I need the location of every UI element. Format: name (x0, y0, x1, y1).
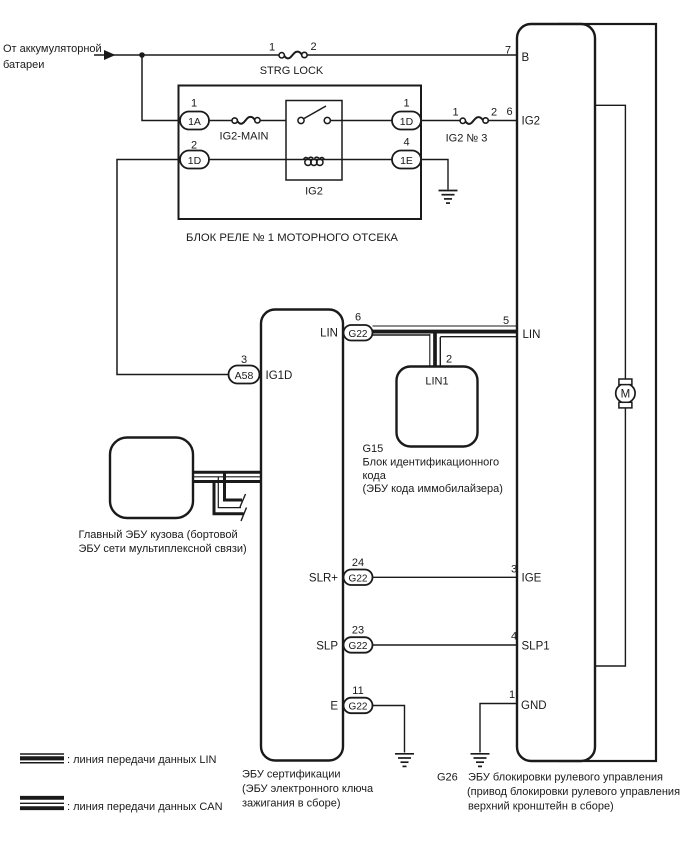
ground (E) (395, 754, 414, 767)
svg-text:5: 5 (503, 315, 509, 327)
wire junction to relay block pin 1A (142, 55, 180, 121)
svg-text:A58: A58 (235, 370, 254, 382)
LIN drop to G15 (thin-thick-thin vertical) (430, 332, 441, 367)
svg-text:SLP: SLP (316, 641, 338, 653)
svg-text:Блок идентификационного: Блок идентификационного (363, 456, 500, 468)
svg-text:G15: G15 (363, 443, 384, 455)
svg-text:2: 2 (310, 41, 316, 53)
svg-text:SLR+: SLR+ (309, 573, 338, 585)
fuse IG2 No.3 (446, 106, 513, 145)
svg-text:G26: G26 (437, 772, 458, 784)
svg-text:7: 7 (505, 45, 511, 57)
svg-text:БЛОК РЕЛЕ № 1 МОТОРНОГО ОТСЕКА: БЛОК РЕЛЕ № 1 МОТОРНОГО ОТСЕКА (186, 232, 398, 244)
svg-text:1: 1 (452, 107, 458, 119)
legend CAN line symbol (20, 798, 64, 808)
svg-text:GND: GND (521, 700, 547, 712)
LIN bus wire (thin-thick-thin) (373, 326, 517, 337)
certification ECU block (261, 310, 343, 761)
wire 1D left to A58 (117, 160, 229, 375)
motor M1 (616, 379, 635, 408)
svg-text:LIN: LIN (523, 329, 541, 341)
svg-text:1D: 1D (188, 155, 202, 167)
relay block no.1 box (179, 86, 422, 220)
svg-text:G22: G22 (349, 329, 368, 340)
svg-text:2: 2 (491, 107, 497, 119)
wire 1D(left) to coil (209, 159, 392, 161)
relay coil (303, 157, 324, 165)
svg-text:ЭБУ блокировки рулевого управл: ЭБУ блокировки рулевого управления (468, 772, 663, 784)
svg-text:3: 3 (241, 354, 247, 366)
svg-text:24: 24 (352, 557, 364, 569)
svg-text:G22: G22 (349, 641, 368, 652)
ECU block G26 (rounded) (517, 24, 595, 761)
wire motor loop (595, 105, 625, 666)
CAN branch continues (down then right with cut end) (214, 472, 247, 521)
svg-text:(привод блокировки рулевого уп: (привод блокировки рулевого управления (467, 786, 680, 798)
svg-text:ЭБУ сертификации: ЭБУ сертификации (242, 769, 341, 781)
svg-text:4: 4 (403, 137, 409, 149)
wire SLR+ to IGE (373, 576, 517, 578)
svg-text:M: M (621, 389, 631, 401)
legend LIN line symbol (20, 754, 64, 763)
ground (GND) (471, 754, 490, 767)
wire E to ground (373, 706, 405, 753)
svg-text:кода: кода (363, 470, 387, 482)
svg-text:1: 1 (403, 98, 409, 110)
svg-text:6: 6 (355, 312, 361, 324)
svg-text:(ЭБУ кода иммобилайзера): (ЭБУ кода иммобилайзера) (363, 483, 503, 495)
svg-text:1A: 1A (188, 116, 201, 128)
connector oval G22 pin 24 (SLR+) (344, 557, 373, 585)
relay contact (298, 106, 392, 124)
svg-text:IG2 № 3: IG2 № 3 (446, 133, 488, 145)
svg-text:IG2-MAIN: IG2-MAIN (220, 131, 269, 143)
svg-text:IG2: IG2 (305, 186, 323, 198)
svg-text:2: 2 (446, 354, 452, 366)
svg-text:LIN: LIN (320, 328, 338, 340)
svg-text:верхний кронштейн в сборе): верхний кронштейн в сборе) (468, 801, 614, 813)
svg-text:ЭБУ сети мультиплексной связи): ЭБУ сети мультиплексной связи) (79, 543, 247, 555)
wire from battery (94, 54, 517, 56)
svg-text:1: 1 (269, 42, 275, 54)
svg-text:23: 23 (352, 625, 364, 637)
fuse STRG LOCK (260, 41, 324, 77)
svg-text:3: 3 (511, 564, 517, 576)
fuse IG2-MAIN (220, 117, 269, 143)
svg-text:STRG LOCK: STRG LOCK (260, 65, 324, 77)
outer rectangle of steering lock actuator assembly (560, 24, 656, 761)
block G15 (397, 367, 478, 447)
svg-text:SLP1: SLP1 (522, 641, 550, 653)
svg-text:1D: 1D (400, 116, 414, 128)
svg-text:IG1D: IG1D (266, 370, 293, 382)
svg-text:4: 4 (511, 631, 517, 643)
connector oval A58 pin 3 (229, 354, 260, 384)
svg-text:G22: G22 (349, 574, 368, 585)
svg-text:батареи: батареи (3, 59, 44, 71)
svg-text:2: 2 (191, 140, 197, 152)
svg-text:G22: G22 (349, 702, 368, 713)
svg-text:IGE: IGE (522, 573, 542, 585)
svg-text:: линия передачи данных LIN: : линия передачи данных LIN (67, 754, 217, 766)
svg-text:1: 1 (509, 689, 515, 701)
svg-text:1E: 1E (400, 155, 413, 167)
arrow (104, 50, 116, 60)
svg-text:6: 6 (506, 106, 512, 118)
svg-text:: линия передачи данных CAN: : линия передачи данных CAN (67, 801, 223, 813)
ground (relay) (439, 191, 458, 204)
wire SLP to SLP1 (373, 644, 517, 646)
svg-text:LIN1: LIN1 (425, 376, 448, 388)
wire GND to ground (480, 704, 517, 753)
svg-text:11: 11 (352, 685, 363, 697)
connector oval G22 pin 6 (LIN) (344, 312, 373, 341)
connector oval 1A pin 1 (180, 98, 209, 130)
connector oval 1D pin 1 (right) (392, 98, 421, 130)
svg-text:(ЭБУ электронного ключа: (ЭБУ электронного ключа (242, 783, 374, 795)
svg-text:зажигания в сборе): зажигания в сборе) (242, 798, 341, 810)
svg-text:B: B (522, 52, 530, 64)
svg-text:1: 1 (191, 98, 197, 110)
svg-text:IG2: IG2 (522, 116, 541, 128)
wire 1A to relay contact (209, 120, 298, 122)
wire 1D right to fuse IG2 No.3 to block (421, 120, 517, 122)
svg-text:Главный ЭБУ кузова (бортовой: Главный ЭБУ кузова (бортовой (79, 529, 238, 541)
wire 1E to ground (421, 160, 448, 190)
connector oval G22 pin 11 (E) (344, 685, 373, 713)
junction (139, 52, 145, 58)
relay IG2 inner box (286, 101, 342, 181)
main body ECU block (110, 438, 193, 519)
connector oval G22 pin 23 (SLP) (344, 625, 373, 653)
connector oval 1D pin 2 (left) (180, 140, 209, 169)
connector oval 1E pin 4 (392, 137, 421, 169)
svg-text:E: E (330, 701, 338, 713)
svg-text:От аккумуляторной: От аккумуляторной (3, 43, 102, 55)
CAN bus wire (thick-thin-thick) from main body ECU (193, 472, 261, 481)
